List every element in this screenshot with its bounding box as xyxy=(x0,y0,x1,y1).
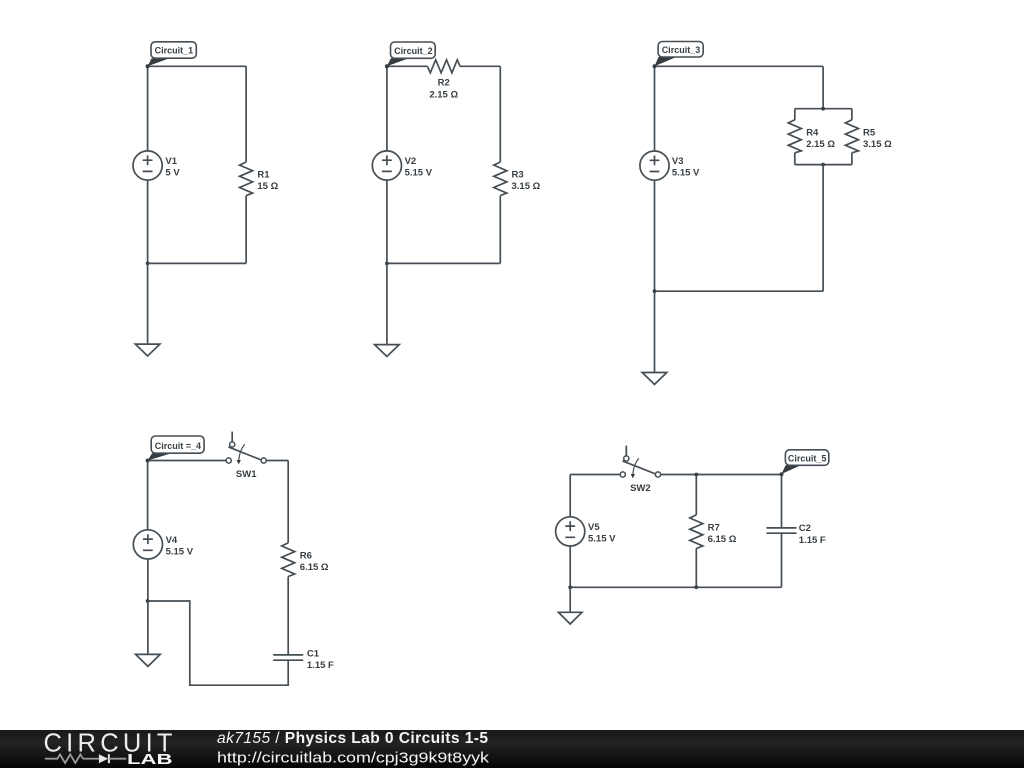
capacitor C1 xyxy=(273,648,334,671)
svg-text:LAB: LAB xyxy=(127,752,173,768)
wire left rail lower c1 xyxy=(147,180,149,263)
capacitor C2 xyxy=(767,475,826,588)
svg-text:R2: R2 xyxy=(438,77,450,88)
wire left rail upper c2 xyxy=(386,66,388,151)
node label Circuit_2 xyxy=(385,42,435,68)
svg-text:R5: R5 xyxy=(863,127,876,138)
voltage source V3 xyxy=(640,151,700,180)
svg-text:V3: V3 xyxy=(672,156,684,167)
footer title line xyxy=(217,730,488,747)
resistor R6 xyxy=(282,543,329,577)
svg-text:ak7155 / Physics Lab 0 Circuit: ak7155 / Physics Lab 0 Circuits 1-5 xyxy=(217,730,488,747)
logo CIRCUIT text xyxy=(44,730,173,758)
node c5 junction bottom xyxy=(694,585,698,589)
svg-text:5.15 V: 5.15 V xyxy=(166,546,194,557)
ground c5 xyxy=(559,587,582,624)
ground c4 xyxy=(136,601,161,666)
svg-text:6.15 Ω: 6.15 Ω xyxy=(708,534,737,545)
svg-text:Circuit =_4: Circuit =_4 xyxy=(155,441,201,451)
wire top-left c5 xyxy=(570,474,620,476)
wire top-right c5 xyxy=(661,474,782,476)
svg-text:1.15 F: 1.15 F xyxy=(799,535,826,546)
svg-text:5.15 V: 5.15 V xyxy=(588,533,616,544)
svg-text:R6: R6 xyxy=(300,550,312,561)
wire left rail lower c3 xyxy=(654,180,656,291)
wire top-right c4 xyxy=(266,460,288,462)
logo LAB text xyxy=(127,752,173,768)
svg-text:2.15 Ω: 2.15 Ω xyxy=(806,139,835,150)
wire top-right c2 xyxy=(460,65,500,67)
logo diode xyxy=(99,754,126,763)
wire top c3 xyxy=(655,65,824,67)
switch SW1 xyxy=(226,432,266,480)
wire right rail mid c4 xyxy=(287,577,289,655)
svg-text:C2: C2 xyxy=(799,523,811,534)
svg-text:C1: C1 xyxy=(307,648,320,659)
wire left rail lower c4 xyxy=(147,559,149,601)
node c3 bottom xyxy=(653,289,657,293)
voltage source V5 xyxy=(556,517,617,546)
wire top-left c2 xyxy=(387,65,428,67)
node c5 junction top xyxy=(694,473,698,477)
node c3 parallel bottom xyxy=(821,163,825,167)
ground c1 xyxy=(135,263,160,356)
wire left rail upper c1 xyxy=(147,66,149,151)
svg-text:SW2: SW2 xyxy=(630,483,651,494)
footer url line xyxy=(217,750,489,767)
svg-text:6.15 Ω: 6.15 Ω xyxy=(300,562,329,573)
voltage source V4 xyxy=(133,530,193,559)
wire left rail upper c4 xyxy=(147,461,149,530)
wire bottom c5 xyxy=(570,586,781,588)
svg-text:V5: V5 xyxy=(588,522,600,533)
node label Circuit_3 xyxy=(653,42,704,69)
node c1 bottom xyxy=(146,262,150,266)
svg-text:http://circuitlab.com/cpj3g9k9: http://circuitlab.com/cpj3g9k9t8yyk xyxy=(217,750,489,767)
voltage source V1 xyxy=(133,151,180,180)
svg-text:Circuit_3: Circuit_3 xyxy=(662,45,701,55)
wire parallel bottom bar c3 xyxy=(795,164,852,166)
wire left rail upper c3 xyxy=(654,66,656,151)
svg-text:15 Ω: 15 Ω xyxy=(257,181,278,192)
ground c3 xyxy=(642,291,667,384)
resistor R3 xyxy=(494,66,541,263)
wire parallel top bar c3 xyxy=(795,108,852,110)
svg-text:V2: V2 xyxy=(405,156,417,167)
svg-text:R1: R1 xyxy=(257,170,270,181)
svg-text:Circuit_5: Circuit_5 xyxy=(788,453,827,463)
wire right rail lower c3 xyxy=(822,165,824,292)
node c2 bottom xyxy=(385,262,389,266)
wire top-left c4 xyxy=(148,460,227,462)
node label Circuit_5 xyxy=(780,450,829,477)
svg-text:1.15 F: 1.15 F xyxy=(307,660,334,671)
node c4 bottom xyxy=(146,599,150,603)
resistor R5 xyxy=(845,109,892,165)
node label Circuit_1 xyxy=(146,42,197,69)
svg-text:Circuit_1: Circuit_1 xyxy=(155,46,194,56)
wire bottom c4 xyxy=(148,601,289,685)
svg-text:V4: V4 xyxy=(166,535,178,546)
resistor R2 xyxy=(427,60,460,101)
logo resistor squiggle xyxy=(45,754,99,763)
svg-text:SW1: SW1 xyxy=(236,469,257,480)
wire left rail upper c5 xyxy=(569,475,571,517)
resistor R1 xyxy=(240,66,279,263)
svg-text:V1: V1 xyxy=(165,156,177,167)
wire top c1 xyxy=(148,65,247,67)
ground c2 xyxy=(375,263,400,356)
node c1 top xyxy=(146,64,150,68)
svg-text:R4: R4 xyxy=(806,127,819,138)
wire left rail lower c5 xyxy=(569,546,571,587)
switch SW2 xyxy=(620,446,660,494)
wire bottom c3 xyxy=(655,290,824,292)
svg-text:2.15 Ω: 2.15 Ω xyxy=(429,89,458,100)
svg-text:R7: R7 xyxy=(708,523,720,534)
node label Circuit_4 xyxy=(146,436,205,463)
wire left rail lower c2 xyxy=(386,180,388,263)
wire right rail upper c3 xyxy=(822,66,824,108)
svg-text:5 V: 5 V xyxy=(165,167,180,178)
resistor R4 xyxy=(788,109,835,165)
voltage source V2 xyxy=(372,151,432,180)
node c3 parallel top xyxy=(821,107,825,111)
wire bottom c1 xyxy=(148,262,247,264)
svg-text:R3: R3 xyxy=(512,170,524,181)
svg-text:3.15 Ω: 3.15 Ω xyxy=(863,139,892,150)
svg-text:5.15 V: 5.15 V xyxy=(672,168,700,179)
node c5 left bottom xyxy=(568,585,572,589)
wire right rail upper c4 xyxy=(287,461,289,543)
resistor R7 xyxy=(690,475,737,588)
svg-text:Circuit_2: Circuit_2 xyxy=(394,46,433,56)
wire bottom c2 xyxy=(387,262,500,264)
node c2 top xyxy=(385,64,389,68)
svg-text:3.15 Ω: 3.15 Ω xyxy=(512,181,541,192)
FOOTER BAR xyxy=(0,730,1024,768)
svg-text:5.15 V: 5.15 V xyxy=(405,167,433,178)
